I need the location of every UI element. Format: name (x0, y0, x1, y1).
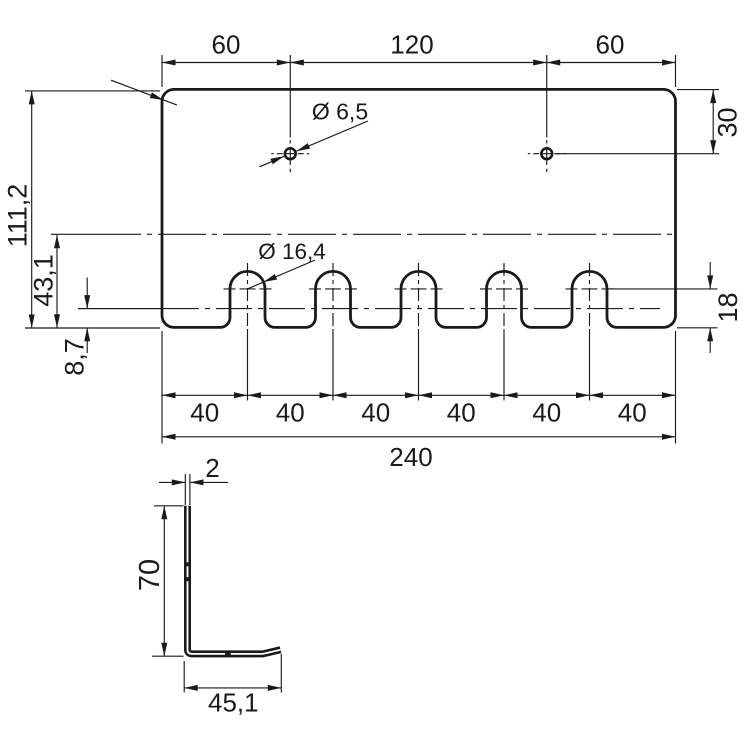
leader line slot dia 16,4 (248, 260, 315, 289)
centre line (bend axis y=234) (51, 233, 676, 235)
svg-text:70: 70 (134, 559, 166, 591)
slot 3 centre lines (395, 263, 443, 401)
svg-text:40: 40 (276, 398, 305, 428)
top dimension line 60/120/60 (162, 60, 676, 66)
svg-text:40: 40 (618, 398, 647, 428)
slot 5 centre lines (566, 263, 614, 401)
dim 30 line (710, 90, 716, 154)
svg-text:120: 120 (390, 30, 433, 60)
dim 70 line (161, 506, 167, 656)
dim 18 line (707, 262, 713, 353)
dim 43,1 line (54, 235, 60, 328)
bend segment ticks on profile (186, 562, 231, 655)
svg-text:18: 18 (713, 292, 743, 322)
hole 1 ring (285, 148, 296, 159)
dim 8,7 extension line (78, 308, 162, 310)
svg-text:2: 2 (205, 453, 219, 483)
svg-text:60: 60 (596, 30, 625, 60)
dim 2 extension lines (185, 474, 190, 505)
dim 111,2 extension lines (25, 91, 160, 328)
dim 45,1 line (184, 685, 281, 691)
plate outline (main view, 240x111,2 with 5 slots) (162, 89, 676, 327)
dim 240 line (162, 434, 676, 440)
slot 4 centre lines (480, 263, 528, 401)
leader line hole dia 6,5 (260, 121, 369, 167)
hole 2 ring (541, 148, 552, 159)
top dimension extension lines (162, 55, 676, 138)
corner leader line top-left (111, 80, 177, 105)
bottom 40-chain dimension line (162, 392, 676, 398)
dim 30 extension lines (555, 90, 719, 154)
svg-text:Ø 16,4: Ø 16,4 (258, 239, 326, 264)
svg-text:40: 40 (447, 398, 476, 428)
svg-text:Ø 6,5: Ø 6,5 (312, 99, 368, 125)
dim 111,2 line (29, 91, 35, 328)
svg-text:40: 40 (361, 398, 390, 428)
svg-text:111,2: 111,2 (3, 184, 33, 248)
dim 8,7 line (84, 278, 90, 354)
svg-text:240: 240 (389, 442, 432, 472)
svg-text:45,1: 45,1 (208, 688, 259, 718)
slot 2 centre lines (309, 263, 357, 401)
side view L-profile (188, 506, 281, 654)
dim 2 line (159, 479, 228, 485)
dim 70 extension lines (152, 506, 184, 656)
svg-text:43,1: 43,1 (29, 254, 59, 307)
svg-text:60: 60 (212, 30, 241, 60)
slot 1 centre lines (224, 263, 272, 401)
dim 45,1 extension lines (184, 654, 281, 693)
lower bend line y=308 (78, 308, 660, 310)
svg-text:30: 30 (713, 107, 743, 137)
hole 1 crosshair (271, 140, 309, 172)
svg-text:8,7: 8,7 (60, 338, 90, 376)
dim 18 extension lines (608, 289, 718, 328)
hole 2 crosshair (528, 140, 566, 172)
bottom 40-chain extension lines (162, 331, 676, 444)
svg-text:40: 40 (190, 398, 219, 428)
svg-text:40: 40 (532, 398, 561, 428)
